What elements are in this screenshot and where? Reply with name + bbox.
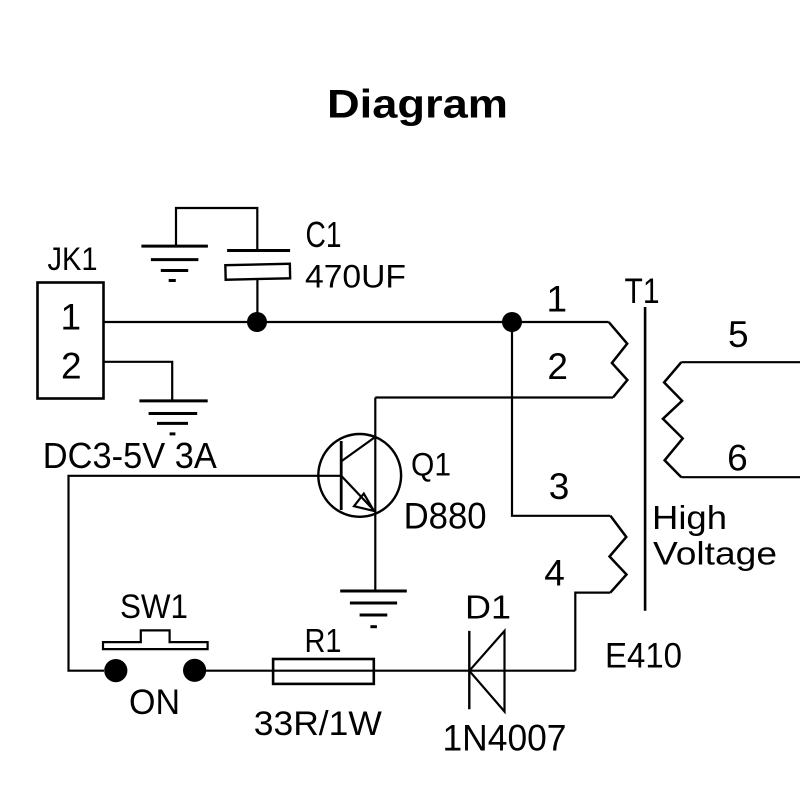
svg-text:DC3-5V 3A: DC3-5V 3A [43,435,217,476]
diode D1 triangle [469,631,504,712]
wire main bus pin1 to T1 [104,321,609,323]
svg-text:R1: R1 [305,623,342,660]
transformer T1 primary winding 1-2 [609,322,628,398]
capacitor C1 top plate [227,249,290,252]
svg-text:T1: T1 [625,272,660,311]
junction node at C1/bus [247,312,267,332]
ground (Q1 emitter) [340,591,407,627]
transformer T1 core [644,307,647,611]
transformer T1 secondary winding 5-6 [663,362,683,477]
svg-text:C1: C1 [306,214,342,255]
wire pin2 of T1 to Q1 collector [375,396,613,398]
transistor Q1 collector stroke [341,438,374,462]
wire top ground loop to C1 [176,208,257,250]
svg-text:1N4007: 1N4007 [443,718,567,759]
svg-text:4: 4 [544,553,565,594]
svg-text:Voltage: Voltage [653,535,777,571]
svg-text:JK1: JK1 [48,241,98,277]
svg-text:High: High [652,499,727,536]
svg-text:470UF: 470UF [305,259,406,295]
transformer T1 primary winding 3-4 [610,516,627,593]
wire secondary pin6 [681,476,800,478]
wire SW1 to R1 [206,670,273,672]
switch SW1 right contact [183,659,206,682]
wire through R1 to D1 [273,670,575,672]
wire pin2 of JK1 to ground [104,362,172,401]
transistor Q1 circle [318,434,401,517]
svg-text:5: 5 [728,314,749,355]
svg-text:1: 1 [61,296,82,337]
svg-text:1: 1 [547,279,568,320]
wire pin4 of T1 to diode D1 [575,593,610,671]
wire C1 to bus junction [256,279,258,322]
wire Q1 collector-emitter vertical through [374,398,376,592]
diode D1 cathode bar [468,631,470,709]
ground (top, near C1) [141,246,208,280]
svg-text:SW1: SW1 [120,588,188,626]
transistor Q1 emitter stroke [341,476,375,511]
junction node at T1/bus [502,312,522,332]
transistor Q1 emitter arrowhead [354,494,374,511]
wire DC input to Q1 base [69,476,342,671]
wire secondary pin5 [681,361,800,363]
svg-text:3: 3 [549,466,570,507]
svg-text:ON: ON [129,683,180,722]
svg-text:2: 2 [61,346,82,387]
switch SW1 body [103,630,208,649]
svg-text:D1: D1 [465,589,511,626]
switch SW1 left contact [104,659,127,682]
capacitor C1 bottom plate [225,264,290,280]
ground (JK1 pin2) [139,401,207,434]
svg-text:Q1: Q1 [411,446,451,482]
svg-text:E410: E410 [605,637,682,676]
svg-text:6: 6 [727,438,748,479]
connector JK1 box [38,283,104,399]
svg-text:2: 2 [547,346,568,387]
svg-text:33R/1W: 33R/1W [254,705,382,743]
wire bus junction down to pin3 of T1 [512,322,610,516]
resistor R1 body [273,659,374,684]
transistor Q1 base bar [340,441,343,510]
svg-text:D880: D880 [404,496,487,537]
svg-text:Diagram: Diagram [327,83,508,127]
